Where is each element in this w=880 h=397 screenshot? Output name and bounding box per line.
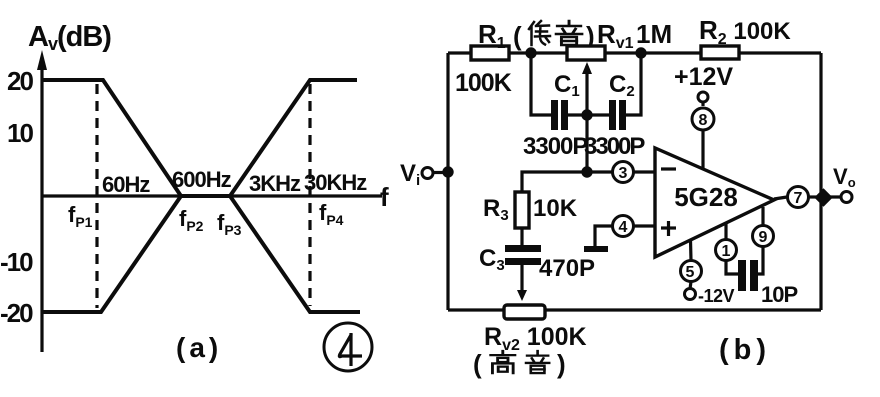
svg-text:fP3: fP3 — [217, 210, 242, 238]
svg-text:R2 100K: R2 100K — [699, 15, 791, 48]
+12V supply terminal — [674, 63, 733, 106]
circled figure number 4 — [324, 323, 372, 371]
node A: R1/Rv1/C1 junction — [525, 47, 536, 58]
node B: Rv1/C2/R2 junction — [635, 47, 646, 58]
svg-text:fP1: fP1 — [68, 202, 93, 230]
wire: inverting input net — [522, 172, 655, 194]
svg-text:R3: R3 — [483, 195, 509, 224]
svg-text:3KHz: 3KHz — [249, 171, 301, 196]
svg-text:R1: R1 — [478, 19, 506, 52]
svg-text:C1: C1 — [554, 71, 580, 100]
label (treble) — [473, 349, 566, 379]
curve: max boost response — [42, 80, 357, 196]
potentiometer Rv2 — [504, 305, 545, 319]
svg-text:20: 20 — [7, 66, 33, 96]
svg-text:470P: 470P — [539, 255, 595, 282]
pin 5 — [681, 240, 702, 282]
CJK char DI (low) — [529, 21, 550, 45]
capacitor C3 — [505, 245, 541, 265]
svg-text:5G28: 5G28 — [674, 182, 738, 212]
pin 1 — [716, 223, 739, 274]
dashed line at fP4 — [308, 84, 311, 306]
pin 9 — [753, 207, 774, 274]
svg-text:): ) — [557, 349, 566, 379]
svg-text:fP2: fP2 — [179, 206, 204, 234]
svg-text:7: 7 — [794, 190, 803, 207]
svg-text:4: 4 — [619, 219, 628, 236]
svg-text:-10: -10 — [0, 247, 33, 277]
Vo output terminal — [823, 164, 856, 203]
svg-text:100K: 100K — [455, 69, 512, 97]
svg-text:1: 1 — [722, 243, 731, 260]
CJK char GAO (high) — [491, 351, 515, 373]
wire: C3 to Rv2 wiper arrow — [517, 265, 527, 301]
svg-text:60Hz: 60Hz — [102, 172, 150, 197]
wire: R3 to C3 — [520, 228, 523, 245]
svg-text:+12V: +12V — [674, 63, 733, 91]
svg-text:(b): (b) — [719, 334, 771, 366]
svg-text:9: 9 — [759, 229, 768, 246]
x-axis f — [42, 194, 382, 197]
svg-text:10P: 10P — [761, 282, 797, 307]
inverting input minus sign — [661, 167, 676, 170]
svg-text:3300P: 3300P — [523, 133, 588, 160]
svg-text:30KHz: 30KHz — [304, 170, 367, 195]
svg-text:(: ( — [473, 349, 482, 379]
svg-text:600Hz: 600Hz — [172, 167, 232, 192]
wire: left rail — [446, 53, 449, 310]
CJK char YIN (sound) — [556, 21, 582, 45]
node: inverting net junction — [581, 166, 592, 177]
node: output junction — [814, 188, 832, 206]
resistor R1 — [471, 46, 509, 60]
wire: wiper node down to inverting input wire — [585, 115, 588, 172]
CJK char YIN (sound) — [526, 351, 549, 373]
svg-text:Rv2 100K: Rv2 100K — [484, 323, 587, 354]
potentiometer Rv1 — [567, 46, 605, 115]
wire: node A down to C1 — [531, 53, 551, 115]
y-axis Av(dB) — [37, 50, 47, 352]
svg-text:10K: 10K — [533, 195, 578, 222]
Vi input terminal — [400, 160, 448, 189]
svg-text:Av(dB): Av(dB) — [28, 21, 111, 54]
svg-text:5: 5 — [686, 264, 695, 281]
svg-text:(: ( — [513, 21, 522, 51]
ground — [584, 246, 608, 252]
op-amp U1 5G28 — [655, 148, 774, 257]
wire: top rail — [448, 51, 821, 54]
y-axis label Av(dB) — [28, 21, 111, 54]
-12V supply terminal — [685, 282, 735, 307]
svg-text:f: f — [380, 182, 389, 212]
svg-text:Vo: Vo — [833, 164, 856, 190]
svg-text:(a): (a) — [176, 332, 222, 363]
node: wiper/C1/C2 junction — [581, 109, 592, 120]
svg-text:-20: -20 — [0, 298, 33, 328]
svg-text:3: 3 — [619, 165, 628, 182]
label R1 (bass) Rv1 1M — [478, 19, 672, 52]
pin 3 — [613, 162, 634, 183]
non-inverting input plus sign — [661, 221, 676, 236]
resistor R3 — [515, 192, 529, 228]
dashed line at fP1 — [95, 84, 98, 308]
svg-text:1M: 1M — [636, 19, 672, 49]
capacitor C1 — [551, 100, 587, 130]
capacitor C2 — [587, 100, 626, 130]
svg-text:Vi: Vi — [400, 160, 420, 189]
wire: right rail — [819, 53, 822, 310]
svg-text:8: 8 — [699, 112, 708, 129]
pin 4 — [613, 216, 634, 237]
svg-text:10: 10 — [7, 118, 33, 148]
curve: max cut response — [42, 196, 360, 312]
svg-text:-12V: -12V — [698, 286, 735, 306]
svg-text:fP4: fP4 — [319, 200, 344, 228]
node: Vi junction — [442, 166, 453, 177]
wire: bottom rail — [448, 308, 821, 311]
svg-text:C3: C3 — [479, 245, 505, 274]
pin 7 output — [774, 187, 823, 208]
resistor R2 — [701, 46, 739, 59]
pin 8 — [692, 108, 714, 169]
wire: C2 up to node B — [626, 53, 641, 115]
capacitor 10P — [738, 260, 758, 291]
svg-text:3300P: 3300P — [584, 133, 645, 160]
svg-text:C2: C2 — [609, 71, 635, 100]
wire: non-inverting input — [595, 226, 655, 246]
